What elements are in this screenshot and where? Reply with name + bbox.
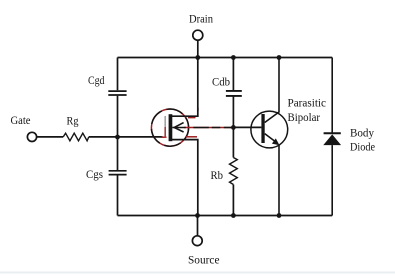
svg-text:Body: Body — [350, 126, 374, 140]
svg-text:Diode: Diode — [350, 140, 375, 154]
junction dots — [115, 55, 281, 218]
svg-text:Source: Source — [188, 252, 220, 266]
transistor parasitic bipolar circle — [251, 111, 288, 148]
wire: gate lead from resistor to MOSFET — [89, 136, 163, 138]
svg-text:Rg: Rg — [67, 114, 79, 128]
wire: bottom rail (source net) — [118, 215, 333, 217]
node: body / Rb junction — [231, 125, 236, 130]
svg-text:Bipolar: Bipolar — [288, 110, 321, 124]
node: source / bottom rail — [195, 213, 200, 218]
MOSFET source lead (red fringe) — [186, 136, 197, 138]
MOSFET drain lead (red fringe) — [188, 117, 196, 119]
body diode cathode bar — [324, 132, 341, 134]
body diode branch wire top — [331, 58, 333, 134]
bipolar collector — [265, 58, 279, 123]
bipolar base bar — [261, 114, 264, 143]
svg-text:Cdb: Cdb — [212, 75, 230, 89]
MOSFET body line red under — [184, 127, 231, 129]
MOSFET body line black dashes — [172, 127, 233, 129]
capacitor Cgs — [109, 171, 127, 175]
node: gate junction — [115, 135, 120, 140]
svg-text:Drain: Drain — [189, 12, 213, 26]
wire: left branch vertical segments (Cgd/Cgs branch) — [117, 58, 119, 216]
body diode triangle — [323, 134, 341, 145]
capacitor Cdb — [226, 91, 242, 96]
MOSFET drain vertical red dash — [197, 108, 199, 112]
bipolar emitter arrowhead — [272, 138, 280, 145]
node: emitter / bottom rail — [277, 213, 282, 218]
terminal Source — [192, 236, 202, 246]
svg-text:Rb: Rb — [211, 168, 224, 182]
resistor Rg — [63, 133, 89, 141]
node: Cdb / top rail — [231, 55, 236, 60]
MOSFET source lead — [171, 140, 198, 216]
svg-text:Cgd: Cgd — [88, 73, 105, 87]
wire: source terminal lead — [197, 216, 199, 236]
faint window edge line at bottom — [0, 272, 395, 274]
wire: top rail (drain net) — [118, 57, 333, 59]
bipolar emitter wire down — [278, 146, 280, 216]
bipolar emitter — [265, 134, 277, 143]
MOSFET gate red tail — [161, 136, 167, 138]
MOSFET body arrow — [174, 123, 183, 132]
MOSFET drain lead — [171, 58, 198, 117]
node: drain / top rail — [195, 55, 200, 60]
node: collector / top rail — [277, 55, 282, 60]
svg-text:Cgs: Cgs — [86, 167, 103, 181]
wire: drain terminal lead — [197, 41, 199, 58]
node: Rb / bottom rail — [231, 213, 236, 218]
body diode branch wire bottom — [331, 145, 333, 215]
svg-text:Gate: Gate — [11, 113, 31, 127]
resistor Rb — [230, 158, 238, 185]
svg-text:Parasitic: Parasitic — [288, 96, 327, 110]
MOSFET gate bar — [164, 116, 166, 127]
capacitor Cgd — [108, 91, 126, 95]
wire: middle branch vertical (Cdb / Rb branch) — [232, 58, 234, 216]
terminal Drain — [193, 30, 203, 40]
bipolar base wire — [233, 126, 261, 128]
MOSFET Q1 body circle (red under, black dashed over) — [151, 109, 188, 146]
MOSFET channel bar — [169, 114, 173, 141]
terminal Gate — [27, 132, 36, 141]
wire: gate lead from terminal to resistor — [37, 136, 63, 138]
